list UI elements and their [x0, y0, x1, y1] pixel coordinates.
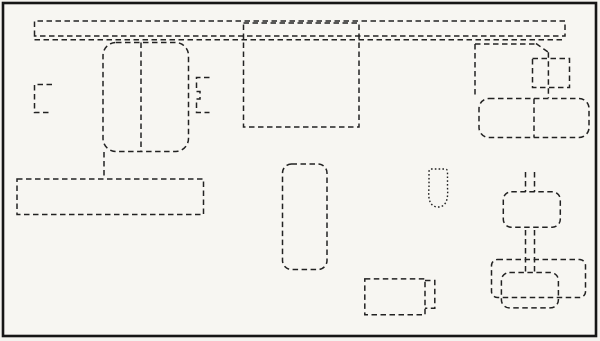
light sw conduit vertical [547, 52, 549, 98]
coupling dashed box (notched) [197, 78, 210, 113]
control switch unit1 dashed box [503, 192, 560, 227]
operator strip second line [35, 39, 566, 41]
limit switch dashed box [479, 99, 589, 138]
light sw dashed box [533, 59, 570, 88]
radio receiver dashed box [17, 179, 204, 215]
conduit vertical to limit box [474, 44, 476, 98]
operator enclosure (dashed strip) [35, 21, 566, 36]
light sw dashed diagonal [536, 44, 548, 53]
relay dashed box [244, 23, 360, 127]
junction box dashed [283, 164, 328, 270]
30A box right tab [425, 281, 435, 309]
limit switch divider [533, 99, 535, 138]
big bottom-right dashed box [492, 260, 586, 298]
centrifugal cutout dashed outline [35, 85, 53, 113]
conduit stub between control units [525, 230, 527, 273]
lamp dotted outline [429, 169, 448, 207]
motor inner dashed line [140, 43, 142, 152]
conduit row right [475, 43, 537, 45]
30A switch box dashed [365, 279, 425, 315]
conduit motor to receiver [103, 152, 105, 179]
motor dashed box [103, 43, 189, 152]
conduit stub limit to control sw [525, 172, 527, 192]
control switch unit2 dashed box [501, 273, 558, 308]
